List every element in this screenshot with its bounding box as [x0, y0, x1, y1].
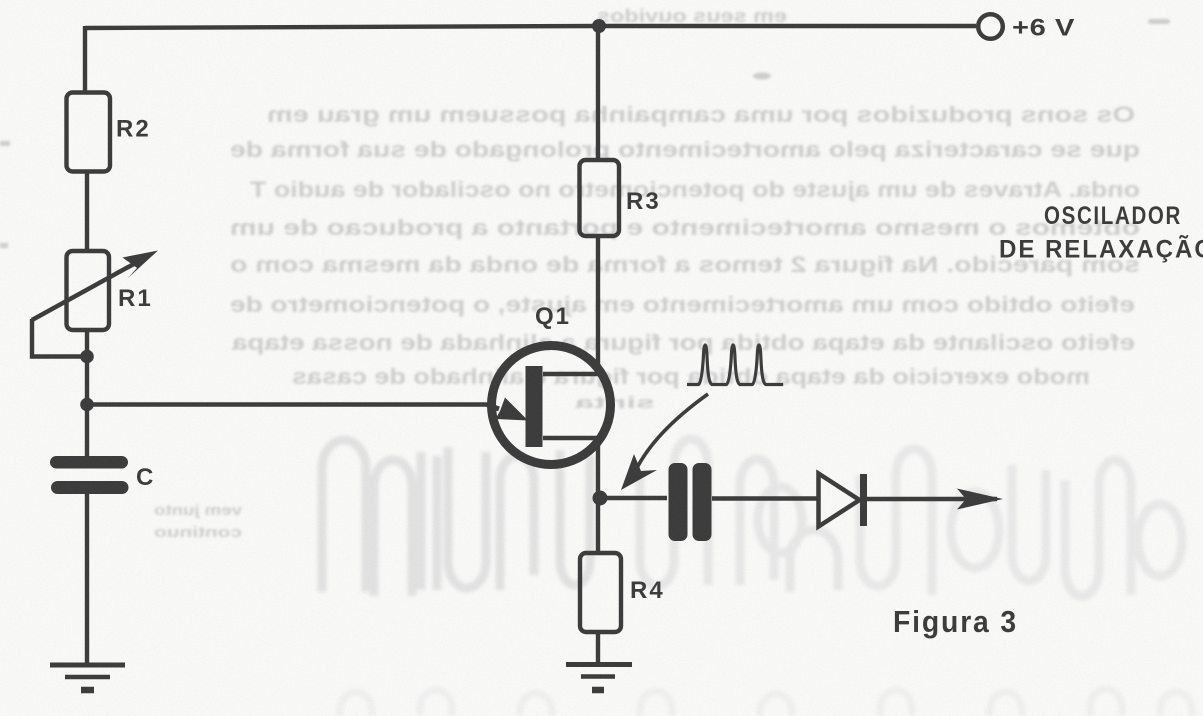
ground (mid) [566, 665, 632, 691]
diode D1 triangle [819, 474, 860, 527]
+6V terminal circle [978, 14, 1003, 39]
output arrow [957, 489, 1003, 510]
wire: mid branch rail to R3 [596, 26, 600, 160]
wire: emitter horizontal [87, 402, 489, 406]
node C (output junction) [593, 491, 608, 506]
resistor R4 [580, 553, 621, 632]
node top rail [592, 19, 606, 33]
wire: node to R4 [596, 498, 600, 553]
resistor R3 [580, 160, 620, 236]
wire: R4 to ground [596, 632, 600, 663]
ground (left) [50, 665, 125, 690]
Q1 emitter arrow [487, 405, 499, 410]
wire: node to coupling capacitor [600, 496, 667, 500]
wire: R1 to capacitor C [85, 330, 89, 457]
resistor R2 [67, 93, 111, 172]
Q1 B1 lead [543, 438, 598, 498]
wire: R2 to R1 [85, 172, 89, 252]
wire: diode to output arrow [867, 497, 997, 501]
wire: R3 to B2 corner [543, 236, 598, 374]
diode cathode bar [860, 474, 867, 526]
coupling capacitor plates [669, 463, 688, 541]
waveform pulses [687, 345, 783, 385]
capacitor C plates [50, 456, 128, 469]
resistor R1 (variable) body [67, 251, 110, 330]
node B (emitter tap) [80, 398, 94, 412]
wire: capacitor to diode [712, 496, 817, 500]
curved pointer arrow [634, 394, 708, 474]
node A (wiper junction) [80, 350, 94, 364]
wire: C to ground [85, 494, 89, 664]
wire: left branch top (rail to R2) [83, 26, 87, 93]
R1 wiper wire [32, 319, 84, 357]
Q1 base bar [526, 366, 543, 447]
R1 arrow (variable) [32, 260, 141, 320]
transistor Q1 circle [492, 346, 611, 465]
wire: top rail +6V [85, 26, 976, 28]
